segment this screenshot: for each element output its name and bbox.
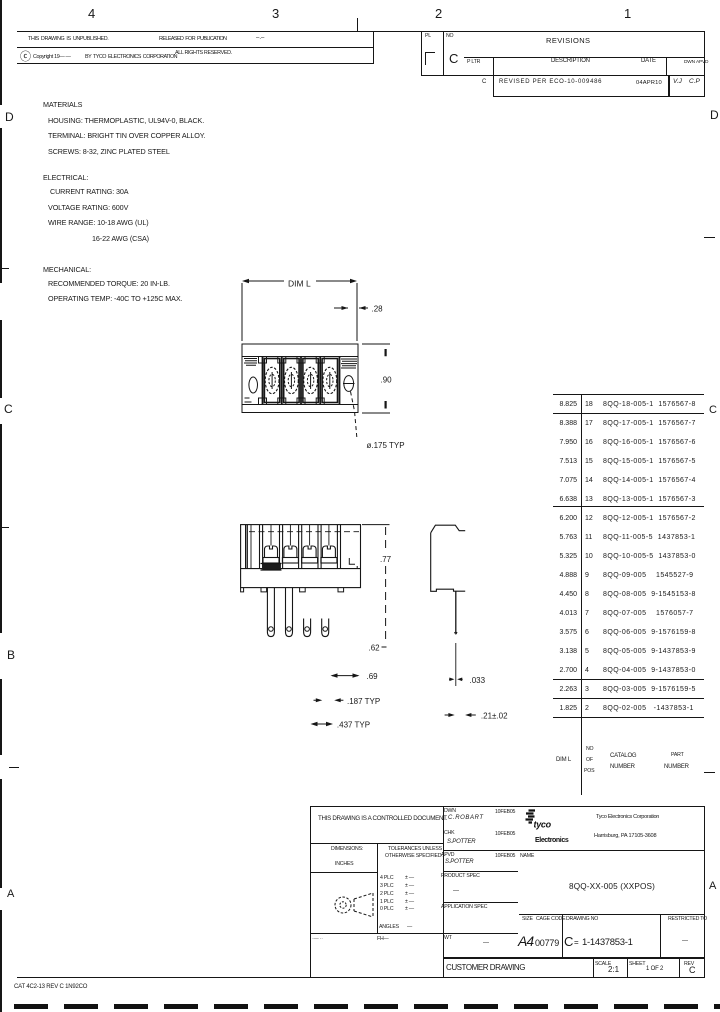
tyco logo [524,807,572,847]
svg-text:.28: .28 [372,305,384,314]
svg-text:.033: .033 [470,676,486,685]
bottom perforation dashes [14,1004,720,1009]
base feet [241,588,344,592]
svg-text:.187 TYP: .187 TYP [347,697,380,706]
bracket symbol in PL cell [425,52,435,53]
divider notches top/bottom [259,357,325,364]
tabs 1,2 full [267,588,274,637]
left end detail [244,359,257,366]
dim L line with arrows [244,280,355,282]
barriers [260,525,341,569]
body outline [241,525,361,588]
projection symbol [330,888,380,922]
svg-text:.69: .69 [367,672,379,681]
screw center slots visible from top [251,525,329,568]
svg-text:.21±.02: .21±.02 [481,712,508,721]
.033 dim [449,678,463,680]
end hole with slot [344,376,354,392]
svg-text:DIM L: DIM L [288,279,311,289]
left end wall [246,525,248,569]
leader to hole [351,392,357,438]
cell 1 clamped wire dark block [262,563,281,570]
screws [263,546,337,563]
svg-text:.77: .77 [380,555,392,564]
.90 dim [362,344,390,413]
svg-text:.62: .62 [369,644,381,653]
hidden top line [249,531,359,533]
screw cells [264,359,279,403]
tabs 3,4 partial [304,619,311,637]
side view profile [431,525,466,533]
.187 TYP [314,699,344,701]
svg-text:.437 TYP: .437 TYP [337,721,370,730]
dim L extension lines [242,283,357,341]
.437 TYP [312,723,332,725]
svg-text:Electronics: Electronics [535,837,569,844]
.28 dim [334,307,368,309]
right end hatch [341,359,357,368]
dividers [263,357,340,405]
terminal floor [241,568,361,570]
svg-text:.90: .90 [381,376,393,385]
right end bracket detail [349,558,357,568]
.69 dim [332,675,358,677]
bottom frame line [17,977,704,978]
top zone numbers [88,6,95,21]
.21 dim [445,714,476,716]
side tab [455,591,457,633]
svg-text:tyco: tyco [534,820,552,830]
block outline [242,344,358,413]
.77 dim [362,524,390,526]
svg-text:ø.175 TYP: ø.175 TYP [367,441,405,450]
